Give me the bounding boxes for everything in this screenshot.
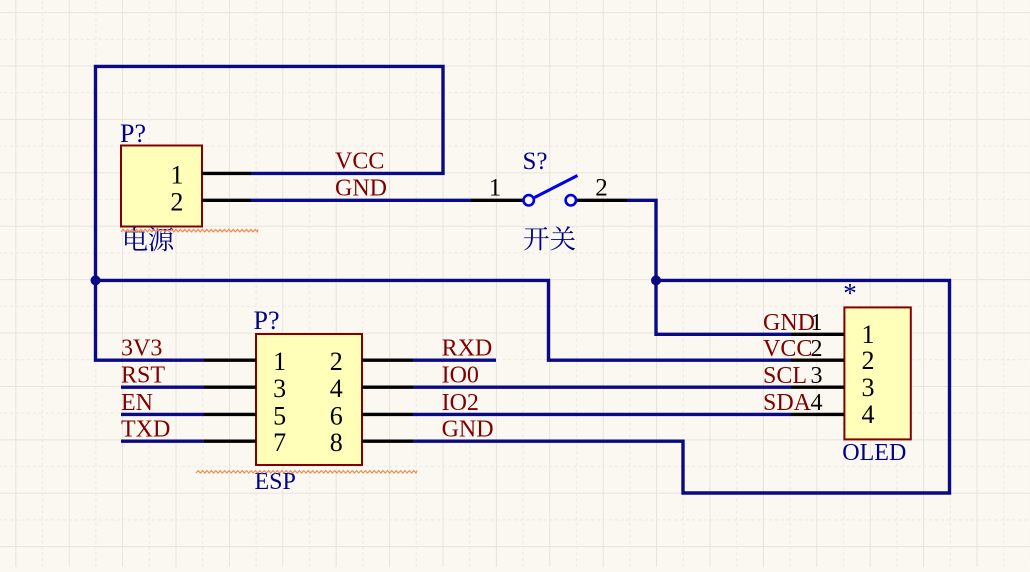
wire stub net EN at ESP pin5	[121, 413, 204, 416]
svg-text:*: *	[843, 278, 857, 308]
net label EN	[121, 390, 153, 416]
P? pin number 1	[170, 160, 183, 189]
svg-text:5: 5	[273, 401, 286, 430]
net label GND	[335, 175, 387, 201]
svg-text:TXD: TXD	[121, 417, 170, 443]
wire net GND rail: junction B right side loop to ESP pin8 GND	[413, 280, 950, 493]
switch pin number 2	[595, 175, 608, 202]
ESP pin 8	[362, 440, 413, 443]
OLED pin number 2 inside	[862, 346, 875, 375]
OLED pin 1	[791, 333, 844, 336]
comment text OLED	[842, 440, 906, 466]
designator P? power	[120, 119, 146, 148]
wire net GND: junction B down to OLED pin1 GND	[656, 280, 791, 334]
svg-text:RST: RST	[121, 363, 165, 389]
wire stub net TXD at ESP pin7	[121, 440, 204, 443]
svg-text:GND: GND	[763, 310, 815, 336]
svg-text:4: 4	[811, 390, 823, 416]
OLED pin 3	[791, 386, 844, 389]
ESP pin number 1	[273, 347, 286, 376]
OLED pin 4	[791, 413, 844, 416]
connector OLED body	[844, 307, 910, 439]
P? pin 2	[202, 199, 251, 202]
switch pin number 1	[489, 175, 502, 202]
wire: switch S? pin2 to junction B	[627, 200, 656, 280]
OLED pin 2	[791, 359, 844, 362]
ESP pin number 8	[330, 428, 343, 457]
svg-text:2: 2	[862, 346, 875, 375]
net label TXD	[121, 417, 170, 443]
switch S? lever arm	[535, 176, 578, 198]
P? pin 1	[202, 172, 251, 175]
designator P? ESP	[254, 306, 280, 335]
ESP pin number 2	[330, 347, 343, 376]
svg-text:EN: EN	[121, 390, 153, 416]
pin name VCC at OLED pin2	[763, 336, 812, 362]
svg-text:4: 4	[330, 374, 343, 403]
svg-text:VCC: VCC	[763, 336, 812, 362]
net label 3V3	[121, 336, 162, 362]
comment text ESP	[255, 469, 296, 495]
comment text 开关	[524, 226, 575, 250]
svg-text:P?: P?	[254, 306, 280, 335]
svg-text:IO0: IO0	[442, 363, 479, 389]
svg-text:2: 2	[170, 187, 183, 216]
OLED pin number 1 outside	[811, 310, 823, 336]
svg-text:P?: P?	[120, 119, 146, 148]
junction B on net GND	[651, 275, 661, 285]
net label RST	[121, 363, 165, 389]
switch S? pin 2	[577, 199, 628, 202]
ESP pin 6	[362, 413, 413, 416]
wire stub net RST at ESP pin3	[121, 386, 204, 389]
ESP pin number 5	[273, 401, 286, 430]
OLED pin number 4 outside	[811, 390, 823, 416]
svg-text:4: 4	[862, 400, 875, 429]
svg-text:3: 3	[273, 374, 286, 403]
ESP pin 7	[204, 440, 256, 443]
wire net IO2: ESP pin6 to OLED pin4 SDA	[413, 413, 791, 416]
svg-text:SDA: SDA	[763, 390, 812, 416]
pin name GND at OLED pin1	[763, 310, 815, 336]
pin name SCL at OLED pin3	[763, 363, 807, 389]
switch S? right contact circle	[566, 195, 576, 205]
svg-text:SCL: SCL	[763, 363, 807, 389]
svg-text:1: 1	[489, 175, 502, 202]
switch S? left contact circle	[524, 195, 534, 205]
ESP pin 5	[204, 413, 256, 416]
ESP pin 3	[204, 386, 256, 389]
svg-text:2: 2	[595, 175, 608, 202]
compile-error squiggle under P?	[121, 229, 258, 231]
svg-text:IO2: IO2	[442, 390, 479, 416]
wire net GND: P? pin2 to switch S? pin1	[251, 199, 471, 202]
junction A on net VCC	[91, 275, 101, 285]
svg-text:GND: GND	[335, 175, 387, 201]
net label RXD	[442, 336, 493, 362]
svg-text:S?: S?	[523, 148, 548, 175]
P? pin number 2	[170, 187, 183, 216]
pin name SDA at OLED pin4	[763, 390, 812, 416]
svg-text:2: 2	[330, 347, 343, 376]
svg-text:1: 1	[170, 160, 183, 189]
net label VCC	[335, 148, 384, 174]
svg-text:7: 7	[273, 428, 286, 457]
svg-text:RXD: RXD	[442, 336, 493, 362]
OLED pin number 2 outside	[811, 336, 823, 362]
ESP pin 4	[362, 386, 413, 389]
svg-text:1: 1	[273, 347, 286, 376]
comment text 电源	[125, 227, 173, 251]
OLED pin number 3 outside	[811, 363, 823, 389]
svg-text:3: 3	[862, 373, 875, 402]
net label IO0	[442, 363, 479, 389]
svg-text:8: 8	[330, 428, 343, 457]
switch S? pin 1	[471, 199, 523, 202]
wire stub net RXD at ESP pin2	[413, 359, 496, 362]
ESP pin number 3	[273, 374, 286, 403]
wire net VCC: P? pin1 up over top loop down to junction A and ESP pin1 3V3	[96, 66, 444, 360]
svg-text:3V3: 3V3	[121, 336, 162, 362]
OLED pin number 1 inside	[862, 320, 875, 349]
wire net IO0: ESP pin4 to OLED pin3 SCL	[413, 386, 791, 389]
net label IO2	[442, 390, 479, 416]
wire net VCC branch: junction A to step down to OLED pin2 VCC	[96, 280, 792, 360]
designator * OLED	[843, 278, 857, 308]
ESP pin 2	[362, 359, 413, 362]
ESP pin number 7	[273, 428, 286, 457]
ESP pin 1	[204, 359, 256, 362]
net label GND at ESP pin8	[442, 417, 494, 443]
ESP pin number 6	[330, 401, 343, 430]
OLED pin number 3 inside	[862, 373, 875, 402]
ESP pin number 4	[330, 374, 343, 403]
OLED pin number 4 inside	[862, 400, 875, 429]
compile-error squiggle under ESP	[196, 471, 417, 473]
svg-text:GND: GND	[442, 417, 494, 443]
svg-text:3: 3	[811, 363, 823, 389]
designator S?	[523, 148, 548, 175]
svg-text:1: 1	[862, 320, 875, 349]
connector P? power body	[121, 146, 202, 227]
svg-text:OLED: OLED	[842, 440, 906, 466]
svg-text:VCC: VCC	[335, 148, 384, 174]
connector P? ESP body	[256, 334, 362, 465]
svg-text:6: 6	[330, 401, 343, 430]
